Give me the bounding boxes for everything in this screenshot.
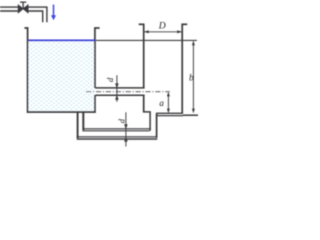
tank right wall lower stub xyxy=(94,95,96,113)
dimension d upper (outside arrows) xyxy=(116,75,118,102)
water fill xyxy=(29,41,95,112)
svg-text:b: b xyxy=(189,74,194,84)
cylinder D left wall lower xyxy=(143,95,145,112)
tank right wall upper xyxy=(94,27,96,88)
svg-text:d: d xyxy=(117,118,126,123)
cylinder D floor (double line) xyxy=(156,112,183,114)
drop shaft outer wall xyxy=(77,112,79,138)
dimension b line with arrows xyxy=(192,42,194,112)
dimension a line with arrows xyxy=(167,93,169,112)
tank floor xyxy=(27,111,96,113)
svg-text:D: D xyxy=(158,20,166,31)
svg-text:d: d xyxy=(106,77,115,82)
centerline (dash-dot) xyxy=(86,91,170,93)
tank right lip xyxy=(95,27,100,29)
water surface line (blue) xyxy=(28,39,94,41)
tank left wall xyxy=(27,27,29,113)
supply pipe top line with elbow xyxy=(0,7,47,22)
valve stem xyxy=(20,2,26,8)
cylinder D right lip xyxy=(182,23,187,25)
lower duct top wall (double line) xyxy=(83,128,151,130)
valve V (bowtie) xyxy=(18,5,23,13)
cylinder D left wall upper xyxy=(143,24,145,88)
cylinder D right wall xyxy=(181,24,183,115)
cylinder D left lip xyxy=(139,23,144,25)
svg-text:a: a xyxy=(159,98,164,108)
inflow arrow (blue) xyxy=(53,5,55,17)
horizontal nozzle bottom wall xyxy=(95,94,145,96)
dimension D line with arrows xyxy=(144,31,181,33)
dimension d lower (outside arrows) xyxy=(125,112,127,146)
supply pipe bottom line with elbow xyxy=(0,11,43,22)
drop shaft inner wall xyxy=(82,112,84,130)
b extension line at water level xyxy=(96,39,197,41)
cylinder D left bottom step xyxy=(143,112,150,131)
horizontal nozzle top wall xyxy=(95,87,145,89)
duct right riser wall xyxy=(156,113,158,138)
tank left lip xyxy=(24,27,28,29)
lower duct bottom wall (double line) xyxy=(77,136,158,138)
floor extension line for a,b xyxy=(183,114,198,116)
